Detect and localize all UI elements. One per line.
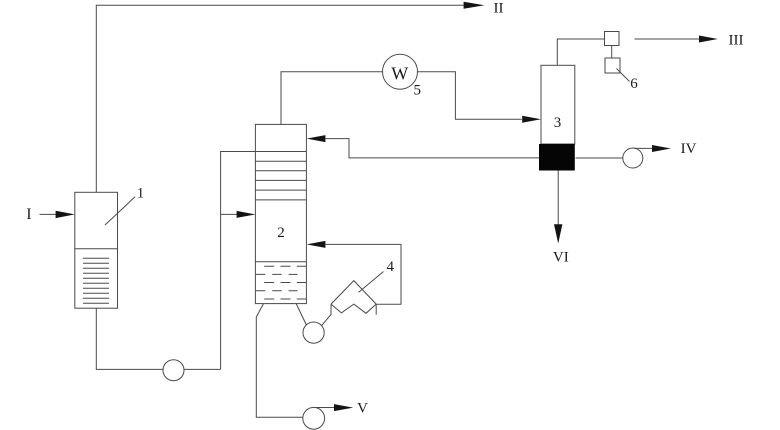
svg-text:4: 4	[387, 259, 395, 275]
svg-text:3: 3	[554, 115, 562, 131]
wire vessel1 bottom to pump P1	[96, 308, 220, 369]
box 6	[605, 58, 620, 73]
svg-text:III: III	[729, 33, 744, 49]
wire vessel 3 to pump P4	[576, 157, 623, 159]
wire pump P4 outlet	[634, 147, 653, 149]
svg-text:W: W	[391, 64, 408, 84]
vessel 3	[539, 65, 575, 170]
arrowhead reflux into column 2	[307, 135, 326, 142]
flow meter 5 (W)	[383, 54, 418, 89]
wire pump P3 outlet	[315, 407, 335, 409]
wire flow meter to vessel 3	[418, 72, 522, 120]
wire riser pump P1 to column 2 upper inlet	[221, 152, 256, 370]
pump P1	[163, 360, 184, 381]
trap box upper	[605, 32, 620, 46]
arrowhead vapor return into column 2	[307, 241, 326, 248]
arrowhead stream I	[56, 211, 75, 218]
pump P2	[303, 322, 324, 343]
svg-text:VI: VI	[553, 249, 569, 265]
arrowhead feed into column 2	[237, 211, 256, 218]
wire stream I into vessel 1	[40, 213, 58, 215]
svg-text:5: 5	[414, 83, 422, 99]
wire column 2 bottoms to pump P3	[256, 304, 303, 418]
arrowhead stream IV	[652, 145, 671, 152]
svg-text:6: 6	[630, 76, 638, 92]
arrowhead stream III	[699, 36, 718, 43]
svg-text:IV: IV	[681, 141, 697, 157]
svg-text:II: II	[494, 0, 504, 16]
label 1 with leader	[105, 185, 144, 225]
wire between boxes	[611, 46, 613, 59]
svg-text:1: 1	[137, 185, 145, 201]
label 4 with leader	[359, 259, 395, 293]
wire stream III	[635, 38, 700, 40]
arrowhead stream II	[464, 2, 485, 9]
svg-text:I: I	[26, 206, 31, 223]
pump P3	[303, 407, 325, 429]
wire overhead column 2 to flow meter 5	[281, 72, 383, 125]
svg-text:V: V	[357, 400, 368, 416]
label 6 with leader	[617, 69, 639, 92]
heat exchanger 4	[331, 281, 376, 315]
wire vapor return from exchanger 4	[325, 244, 401, 304]
wire reflux from vessel 3 to column 2	[325, 139, 539, 158]
pump P4	[623, 148, 643, 168]
wire pump P2 to exchanger 4	[322, 314, 331, 325]
arrowhead stream V	[334, 404, 353, 411]
wire feed branch into column 2	[221, 213, 237, 215]
wire vessel1 top to stream II	[96, 5, 464, 192]
wire column 2 bottoms to pump P2	[296, 304, 306, 325]
wire stream VI down from vessel 3	[557, 171, 559, 226]
arrowhead into vessel 3	[522, 116, 541, 123]
column 2	[255, 124, 306, 303]
wire vessel 3 top to trap box	[557, 39, 604, 65]
svg-text:2: 2	[277, 225, 285, 241]
vessel 1	[75, 192, 118, 308]
arrowhead stream VI	[554, 224, 562, 243]
